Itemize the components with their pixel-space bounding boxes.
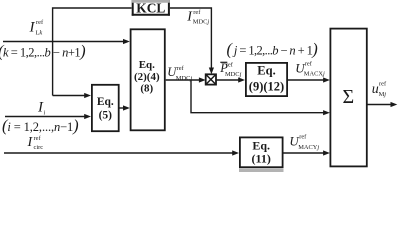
node B branch of U_MDCj down to summator [191, 80, 330, 115]
wire I_i into Eq.(5) input 2 [5, 114, 91, 119]
block Eq.(9)(12) [246, 63, 287, 96]
wire Eq.(11) output into summator [284, 150, 330, 155]
label U_MDCj^ref [167, 65, 192, 82]
svg-text:MDCj: MDCj [176, 75, 193, 82]
svg-text:i: i [44, 110, 46, 117]
svg-text:(9)(12): (9)(12) [249, 79, 284, 93]
svg-text:MDCj: MDCj [193, 19, 210, 26]
svg-text:ref: ref [226, 62, 234, 69]
block KCL [132, 0, 170, 16]
svg-text:(8): (8) [140, 83, 153, 95]
label (j = 1,2,...b-n+1) [227, 39, 318, 58]
wire I_circ into Eq.(11) [4, 150, 239, 155]
svg-text:MDCj: MDCj [225, 71, 242, 78]
svg-text:I: I [27, 135, 34, 150]
svg-text:Eq.: Eq. [97, 96, 114, 108]
label (i = 1,2,...,n-1) [2, 116, 79, 135]
label U_MACYj^ref [289, 134, 319, 151]
label u_Mj^ref [372, 80, 387, 98]
svg-text:ref: ref [177, 65, 185, 72]
svg-text:I: I [29, 20, 36, 36]
svg-text:(i = 1,2,...,n−1): (i = 1,2,...,n−1) [2, 116, 79, 135]
label Pbar_MDCj^ref [219, 61, 241, 78]
block Eq.(2)(4)(8) [131, 29, 165, 130]
wire KCL output down to multiplier [170, 8, 214, 74]
svg-text:ref: ref [193, 9, 201, 16]
label I_Lk^ref [29, 19, 44, 37]
svg-text:Mj: Mj [379, 91, 387, 98]
label I_circ^ref [27, 135, 44, 151]
svg-text:circ: circ [34, 144, 44, 151]
block Eq.(11) [239, 137, 284, 172]
node A branch vertical from I_Lk line up to KCL and down to Eq.(5) [53, 8, 132, 96]
wire Eq.(9)(12) output into summator [288, 77, 330, 82]
wire branch into Eq.(5) input 1 [53, 93, 91, 98]
wire I_Lk horizontal into Eq.(2)(4)(8) [3, 39, 130, 44]
block Eq.(5) [92, 85, 119, 131]
svg-text:Lk: Lk [36, 30, 43, 37]
svg-text:ref: ref [36, 19, 44, 26]
svg-text:(2)(4): (2)(4) [134, 71, 160, 83]
svg-text:( j = 1,2,...b − n + 1): ( j = 1,2,...b − n + 1) [227, 39, 318, 58]
svg-text:(k = 1,2,...b − n+1): (k = 1,2,...b − n+1) [0, 42, 85, 61]
svg-text:Eq.: Eq. [139, 59, 155, 71]
svg-text:MACYj: MACYj [298, 144, 319, 151]
svg-text:(11): (11) [252, 152, 271, 166]
wire Eq.(2)(4)(8) output into multiplier [166, 77, 206, 82]
wire Eq.(5) output into Eq.(2)(4)(8) [120, 105, 130, 110]
label I_i [37, 100, 46, 117]
svg-text:Eq.: Eq. [252, 139, 270, 153]
svg-text:ref: ref [379, 80, 387, 87]
svg-text:ref: ref [305, 60, 313, 67]
svg-text:(5): (5) [99, 109, 113, 121]
svg-text:KCL: KCL [136, 0, 165, 15]
svg-text:ref: ref [34, 135, 42, 142]
summator Sigma [330, 29, 366, 167]
wire summator output u_Mj [367, 102, 397, 107]
svg-text:Σ: Σ [342, 86, 354, 108]
svg-text:MACXj: MACXj [304, 71, 325, 78]
label (k = 1,2,...b-n+1) [0, 42, 85, 61]
label U_MACXj^ref [295, 60, 325, 77]
label I_MDCj^ref [186, 9, 209, 26]
multiplier X1 [206, 74, 216, 84]
svg-text:Eq.: Eq. [257, 64, 275, 78]
svg-text:ref: ref [299, 134, 307, 141]
wire multiplier output into Eq.(9)(12) [216, 77, 245, 82]
